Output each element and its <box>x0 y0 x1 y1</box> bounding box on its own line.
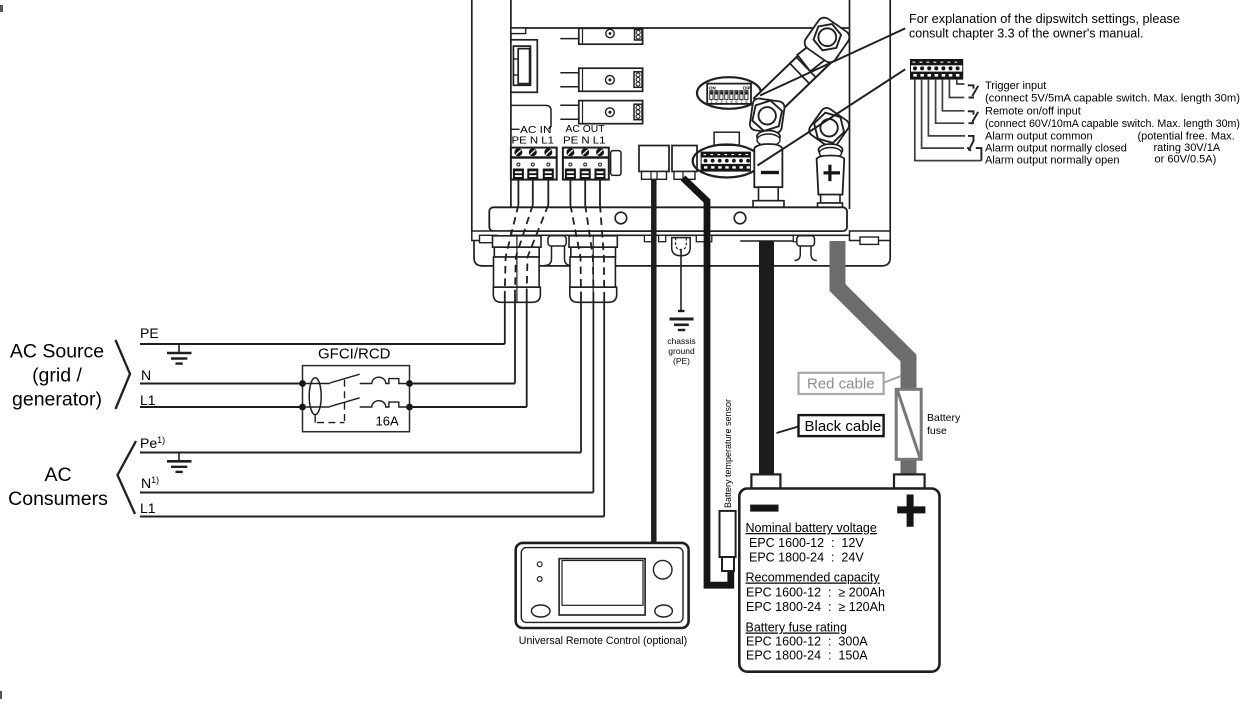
label Black cable <box>777 415 884 436</box>
trigger switch symbol <box>968 85 978 97</box>
GFCI breaker element L1 <box>360 401 410 407</box>
svg-text:or 60V/0.5A): or 60V/0.5A) <box>1155 154 1217 166</box>
red battery cable <box>838 241 909 390</box>
wire N from AC source to GFCI <box>140 383 303 385</box>
svg-text:Consumers: Consumers <box>8 488 108 510</box>
label chassis ground (PE) <box>667 336 695 366</box>
svg-text:N: N <box>141 367 151 383</box>
terminal block AC IN <box>511 148 557 180</box>
label potential free rating <box>1138 131 1235 166</box>
svg-text:EPC 1800-24 : 150A: EPC 1800-24 : 150A <box>746 649 868 663</box>
svg-text:Battery temperature sensor: Battery temperature sensor <box>723 399 733 508</box>
battery minus symbol <box>750 505 778 512</box>
transformer mount tab <box>511 28 526 34</box>
svg-text:EPC 1600-12 : 300A: EPC 1600-12 : 300A <box>746 635 868 649</box>
svg-text:rating 30V/1A: rating 30V/1A <box>1154 142 1221 154</box>
svg-text:Battery fuse rating: Battery fuse rating <box>746 621 847 635</box>
cable gland AC IN <box>493 236 542 302</box>
GFCI/RCD box <box>303 366 410 432</box>
svg-text:GFCI/RCD: GFCI/RCD <box>318 346 391 363</box>
ground symbol on PE <box>167 344 192 364</box>
wire L1 GFCI to enclosure <box>410 406 527 408</box>
svg-text:EPC 1600-12 : 12V: EPC 1600-12 : 12V <box>749 536 864 550</box>
enclosure right inner wall <box>849 0 851 209</box>
wire Pe consumers <box>140 452 581 454</box>
remote switch symbol <box>968 111 978 123</box>
svg-text:PE: PE <box>140 325 159 341</box>
terminal block AC OUT <box>563 148 609 180</box>
highlight ellipse around signal connector <box>693 145 761 178</box>
universal remote control <box>516 543 689 628</box>
battery text block <box>746 521 885 663</box>
battery strap diagonal <box>754 32 840 118</box>
external signal connector (callout) <box>910 59 963 80</box>
chassis ground gland <box>672 238 691 256</box>
GFCI switch contact L1 <box>303 398 360 407</box>
small tabs on flange <box>644 235 653 241</box>
svg-text:Alarm output common: Alarm output common <box>985 131 1093 143</box>
battery temperature sensor body <box>720 511 736 571</box>
svg-text:Black cable: Black cable <box>805 418 882 435</box>
label AC IN <box>511 124 554 147</box>
pin wire alarm NC <box>922 80 964 149</box>
top bolt with nut <box>802 15 852 65</box>
svg-text:Remote on/off input: Remote on/off input <box>985 106 1081 118</box>
wire AC OUT N through gland <box>584 180 586 205</box>
enclosure left outer wall <box>471 0 473 233</box>
junction node N left <box>299 380 306 387</box>
tab above signal connector <box>714 132 739 145</box>
remote control cable <box>651 179 657 543</box>
relay K1 (partial at top) <box>560 28 642 44</box>
svg-text:L1: L1 <box>140 500 156 516</box>
pin wire trigger - <box>949 80 964 98</box>
wire N consumers <box>140 492 593 494</box>
svg-text:AC OUT: AC OUT <box>566 123 606 135</box>
svg-text:L1: L1 <box>140 392 156 408</box>
label Red cable <box>799 373 902 394</box>
junction node N right <box>406 380 413 387</box>
U-notch right of battery cables <box>795 236 817 261</box>
svg-text:(PE): (PE) <box>673 356 690 366</box>
svg-text:ground: ground <box>668 346 695 356</box>
alarm switch symbol <box>967 136 974 151</box>
wire AC IN PE through gland <box>517 180 519 205</box>
svg-text:Recommended capacity: Recommended capacity <box>746 571 881 585</box>
cable gland AC OUT <box>569 236 617 302</box>
GFCI trip linkage dashed <box>314 415 316 423</box>
GFCI current transformer ellipse <box>309 378 321 415</box>
svg-text:Trigger input: Trigger input <box>985 80 1046 92</box>
bracket for AC Consumers <box>118 441 137 514</box>
relay K3 <box>560 101 642 124</box>
svg-text:Universal Remote Control (opti: Universal Remote Control (optional) <box>519 635 687 647</box>
GFCI switch contact N <box>303 374 360 383</box>
transformer U1 <box>511 40 537 93</box>
pin wire remote + <box>942 80 964 111</box>
scan artifact bottom-left <box>0 691 2 699</box>
svg-text:generator): generator) <box>12 389 102 411</box>
svg-text:Alarm output normally open: Alarm output normally open <box>985 155 1120 167</box>
chassis ground symbol <box>670 311 694 330</box>
svg-text:PE N L1: PE N L1 <box>512 135 555 147</box>
battery minus post <box>751 474 780 488</box>
svg-text:Battery: Battery <box>927 412 961 424</box>
alarm NC bracket <box>976 148 982 161</box>
label AC OUT <box>563 123 606 147</box>
svg-text:ON: ON <box>709 86 716 91</box>
wire PE from AC source <box>140 343 505 345</box>
svg-text:For explanation of the dipswit: For explanation of the dipswitch setting… <box>909 12 1180 26</box>
highlight ellipse around dipswitch <box>697 77 761 109</box>
black battery cable <box>759 241 774 476</box>
pin wire alarm common <box>928 80 965 136</box>
battery fuse <box>896 389 921 459</box>
minus battery terminal assembly <box>749 98 785 209</box>
wire AC IN L1 through gland <box>547 180 549 205</box>
strain relief bar <box>489 207 847 231</box>
ground symbol on Pe <box>167 453 192 472</box>
svg-text:(potential free. Max.: (potential free. Max. <box>1138 131 1235 143</box>
callout line from dipswitch to note <box>760 28 905 95</box>
svg-text:EPC 1800-24 : 24V: EPC 1800-24 : 24V <box>749 551 864 565</box>
svg-text:(connect 5V/5mA capable switch: (connect 5V/5mA capable switch. Max. len… <box>985 93 1240 105</box>
battery temperature sensor cable <box>683 178 731 585</box>
enclosure bottom flange <box>472 231 890 266</box>
signal connector J2 on PCB <box>701 152 751 172</box>
U-notch between glands <box>545 236 572 266</box>
wire AC IN N through gland <box>532 180 534 205</box>
wire AC OUT L1 through gland <box>599 180 601 205</box>
svg-text:fuse: fuse <box>927 425 947 437</box>
svg-text:16A: 16A <box>376 414 399 429</box>
relay K2 <box>560 68 642 91</box>
svg-text:EPC 1800-24 : ≥ 120Ah: EPC 1800-24 : ≥ 120Ah <box>746 600 885 614</box>
note text dipswitch settings <box>909 12 1180 41</box>
svg-text:Nominal battery voltage: Nominal battery voltage <box>746 521 877 535</box>
svg-text:EPC 1600-12 : ≥ 200Ah: EPC 1600-12 : ≥ 200Ah <box>746 586 885 600</box>
DC connector box 1 <box>639 146 669 180</box>
wire AC OUT PE through gland <box>569 180 571 205</box>
svg-text:AC Source: AC Source <box>10 341 104 363</box>
svg-text:(connect 60V/10mA capable swit: (connect 60V/10mA capable switch. Max. l… <box>985 118 1240 130</box>
node label: AC Consumers <box>8 464 108 510</box>
wire N GFCI to enclosure <box>410 383 516 385</box>
enclosure right outer wall <box>889 0 891 233</box>
svg-text:chassis: chassis <box>667 336 695 346</box>
wire L1 from AC source to GFCI <box>140 406 303 408</box>
battery box <box>739 489 939 672</box>
plus battery terminal assembly <box>807 106 852 209</box>
bracket for AC Source <box>116 340 131 409</box>
junction node L1 left <box>299 404 306 411</box>
battery plus symbol <box>897 495 925 527</box>
junction node L1 right <box>406 404 413 411</box>
svg-text:Alarm output normally closed: Alarm output normally closed <box>985 143 1127 155</box>
node label: AC Source (grid / generator) <box>10 341 104 411</box>
DC connector box 2 <box>672 146 697 180</box>
svg-text:(grid /: (grid / <box>32 365 82 387</box>
scan artifact top-left <box>0 5 3 12</box>
small component right of AC OUT <box>611 151 621 176</box>
AC IN filter box outline <box>511 105 551 129</box>
enclosure left inner wall <box>510 0 512 234</box>
callout line from signal connector to external connector <box>758 69 906 165</box>
GFCI breaker element N <box>360 377 410 383</box>
dipswitch S1 <box>707 84 751 105</box>
label Battery fuse <box>927 412 961 437</box>
pin wire trigger + <box>957 80 965 84</box>
battery plus post <box>894 474 925 488</box>
enclosure top inner edge <box>511 27 850 29</box>
wire L1 consumers <box>140 516 604 518</box>
svg-text:consult chapter 3.3 of the own: consult chapter 3.3 of the owner's manua… <box>909 27 1143 41</box>
svg-text:AC: AC <box>44 464 71 486</box>
svg-text:Red cable: Red cable <box>807 376 875 393</box>
svg-text:PE N L1: PE N L1 <box>563 135 606 147</box>
svg-text:DIP: DIP <box>743 86 751 91</box>
pin wire remote - <box>936 80 965 124</box>
chassis ground wire <box>680 249 682 310</box>
pin wire alarm NO <box>915 80 982 161</box>
